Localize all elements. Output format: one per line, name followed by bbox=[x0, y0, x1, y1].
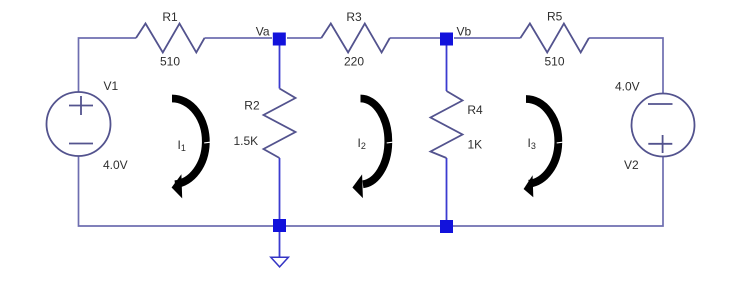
wire R1 to Va bbox=[205, 37, 273, 39]
svg-text:510: 510 bbox=[160, 55, 180, 69]
wire stub Vb to R4 (blue net) bbox=[446, 45, 448, 91]
wire top-left corner bbox=[79, 38, 137, 92]
wire stub R4 to bottom node (blue net) bbox=[446, 158, 448, 221]
mesh current arrow I3 bbox=[524, 99, 564, 197]
voltage source V1 bbox=[47, 92, 111, 156]
svg-text:Vb: Vb bbox=[457, 25, 472, 39]
resistor R1 bbox=[136, 24, 205, 53]
wire R3 to Vb bbox=[390, 37, 440, 39]
svg-text:R3: R3 bbox=[346, 10, 362, 24]
mesh current arrow I2 bbox=[352, 98, 393, 198]
resistor R5 bbox=[520, 24, 589, 53]
resistor R3 bbox=[321, 24, 390, 53]
svg-text:R4: R4 bbox=[467, 103, 483, 117]
svg-text:1K: 1K bbox=[468, 138, 483, 152]
wire stub R2 to bottom node (blue net) bbox=[279, 158, 281, 220]
resistor R4 bbox=[431, 91, 463, 158]
ground bbox=[271, 257, 289, 267]
wire bottom rail with left and right verticals bbox=[79, 156, 664, 226]
wire Vb to R5 bbox=[454, 37, 520, 39]
svg-text:1.5K: 1.5K bbox=[234, 134, 259, 148]
svg-text:V2: V2 bbox=[624, 158, 639, 172]
svg-text:R5: R5 bbox=[547, 10, 563, 24]
svg-text:R1: R1 bbox=[162, 10, 178, 24]
wire stub node to ground (blue net) bbox=[279, 232, 281, 257]
node bottom-left junction bbox=[273, 219, 286, 232]
wire top-right corner bbox=[589, 38, 663, 94]
apex slit I3 bbox=[557, 141, 564, 144]
svg-text:510: 510 bbox=[544, 55, 564, 69]
apex slit I2 bbox=[387, 141, 394, 144]
node Va bbox=[273, 33, 286, 46]
svg-text:R2: R2 bbox=[244, 99, 260, 113]
node Vb bbox=[440, 33, 453, 46]
wire stub Va to R2 (blue net) bbox=[279, 45, 281, 89]
node bottom-right junction bbox=[440, 220, 453, 233]
svg-text:4.0V: 4.0V bbox=[615, 80, 640, 94]
svg-text:220: 220 bbox=[344, 55, 364, 69]
mesh current arrow I1 bbox=[172, 98, 212, 198]
svg-text:Va: Va bbox=[256, 25, 270, 39]
svg-text:V1: V1 bbox=[104, 79, 119, 93]
voltage source V2 bbox=[632, 94, 695, 157]
resistor R2 bbox=[264, 89, 296, 159]
wire Va to R3 bbox=[287, 37, 321, 39]
svg-text:4.0V: 4.0V bbox=[103, 158, 128, 172]
apex slit I1 bbox=[204, 141, 211, 144]
